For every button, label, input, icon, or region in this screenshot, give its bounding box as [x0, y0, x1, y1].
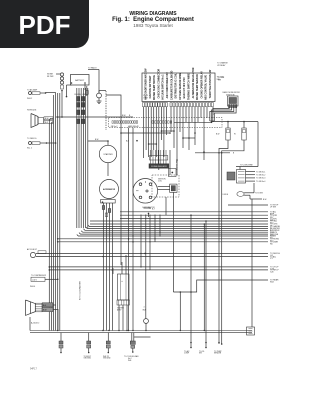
svg-text:TO RADIO: TO RADIO [88, 67, 97, 70]
wire condenser join [195, 140, 244, 344]
ECU harness drop wires [144, 107, 214, 175]
ignition dashed enclosure [152, 175, 179, 197]
ECU connector pin row [143, 103, 214, 107]
svg-text:L-W 2: L-W 2 [32, 280, 37, 282]
svg-text:W-B: W-B [128, 360, 132, 362]
svg-text:HORN (LH): HORN (LH) [27, 110, 37, 112]
svg-text:EGR CUT OFF VSV: EGR CUT OFF VSV [184, 77, 186, 99]
left bus wires [49, 91, 63, 331]
label cooling fan [79, 281, 82, 300]
bus end connector [247, 327, 255, 335]
fusible link feeder wires [77, 88, 88, 228]
starter M1 [88, 139, 117, 176]
svg-text:ALTERNATOR: ALTERNATOR [103, 188, 116, 191]
svg-text:RD: RD [270, 243, 273, 245]
connector A3 [30, 275, 59, 288]
svg-text:W-B 2: W-B 2 [27, 98, 32, 100]
svg-text:COIL: COIL [158, 180, 162, 182]
noise filter NF2 [218, 77, 241, 108]
svg-text:COMP: COMP [184, 353, 190, 355]
idle-up VSV V1 [27, 248, 46, 258]
svg-text:(IGNITION): (IGNITION) [226, 94, 235, 96]
svg-text:AIR CONDITIONER VSV: AIR CONDITIONER VSV [166, 72, 169, 99]
svg-text:J/B No.2: J/B No.2 [111, 126, 118, 128]
svg-text:CHECK ENG CONNECTOR: CHECK ENG CONNECTOR [158, 69, 160, 99]
svg-text:THROTTLE POSITION SW: THROTTLE POSITION SW [210, 69, 212, 98]
drop connector P0 [59, 333, 63, 354]
svg-text:CHOKE OPENER RELAY: CHOKE OPENER RELAY [200, 71, 203, 99]
svg-text:W: W [234, 134, 236, 136]
drop connector P4 [184, 342, 192, 355]
wire bus left risers [30, 309, 58, 331]
igniter U2 [113, 255, 130, 331]
bus junction dots [57, 330, 205, 331]
svg-text:TO A/C AMP: TO A/C AMP [27, 88, 38, 91]
wire band to body harness [36, 205, 281, 274]
band junction dots [102, 218, 219, 271]
svg-text:MAIN RELAY: MAIN RELAY [128, 125, 140, 128]
svg-text:OXYGEN SENSOR WIRE: OXYGEN SENSOR WIRE [180, 72, 182, 100]
wire band lower [128, 238, 134, 243]
ground arrows [144, 207, 156, 217]
svg-text:TO J/B No.1: TO J/B No.1 [256, 171, 265, 173]
svg-text:UNIT: UNIT [144, 98, 149, 100]
svg-text:LP RELAY: LP RELAY [217, 64, 226, 67]
voltage regulator VR1 [149, 150, 176, 177]
noise filter leads [174, 108, 258, 167]
svg-text:L-Y: L-Y [270, 258, 274, 260]
battery B1 [66, 75, 89, 98]
svg-text:FILTER: FILTER [47, 76, 54, 78]
horn H1 [27, 110, 53, 128]
svg-text:TO J/B No.4: TO J/B No.4 [256, 181, 265, 183]
drop connector P6 [214, 342, 223, 355]
svg-text:W TO COOLING FAN: W TO COOLING FAN [79, 281, 82, 300]
svg-text:4: 4 [144, 307, 145, 309]
svg-text:GROUND: GROUND [84, 358, 92, 360]
svg-text:TO COMPRESSOR: TO COMPRESSOR [31, 275, 47, 277]
wire W-feed [46, 93, 134, 118]
svg-text:ABS CONTROL VALVE: ABS CONTROL VALVE [205, 74, 208, 100]
svg-text:ALTERNATOR REGULATOR: ALTERNATOR REGULATOR [192, 67, 195, 98]
ground G1 [88, 67, 106, 131]
svg-text:B-W OIL PR: B-W OIL PR [177, 160, 179, 170]
svg-text:LP SW: LP SW [270, 207, 276, 209]
left bus junctions [49, 116, 59, 271]
drop connector P1 [84, 333, 92, 360]
svg-text:W-B: W-B [270, 282, 274, 284]
svg-text:WATER TEMP SWITCH: WATER TEMP SWITCH [153, 75, 156, 100]
svg-text:STARTER: STARTER [103, 153, 113, 156]
ignition coil T1 [158, 178, 177, 192]
wire right feeds [227, 121, 245, 123]
svg-text:B-W: B-W [122, 115, 126, 117]
wire band corners [77, 225, 268, 236]
watermark 94F17 [30, 368, 37, 371]
svg-text:SENDER: SENDER [214, 353, 222, 355]
svg-text:B-W: B-W [43, 310, 47, 312]
svg-text:A-21032 2: A-21032 2 [31, 322, 39, 325]
svg-text:TO DEFOG: TO DEFOG [27, 138, 37, 140]
ECU control unit U1 [142, 67, 215, 101]
svg-text:DIODE: DIODE [223, 194, 229, 196]
wire coil feeds [166, 150, 179, 292]
wire corner right [173, 279, 279, 331]
svg-text:THERMO SWITCH WIRE: THERMO SWITCH WIRE [189, 73, 191, 100]
alternator G2 [100, 180, 119, 204]
svg-text:W-L 2: W-L 2 [27, 148, 32, 150]
svg-text:TO J/B No.2: TO J/B No.2 [256, 175, 265, 177]
label TO TAIL [217, 62, 228, 67]
svg-text:TO IG SW: TO IG SW [255, 193, 263, 195]
drop connector P3 [124, 333, 151, 362]
svg-text:TO J/B No.3: TO J/B No.3 [256, 178, 265, 180]
drop connector P5 [199, 342, 207, 355]
svg-text:G-B: G-B [270, 272, 274, 274]
condenser C1 C2 [216, 122, 246, 140]
svg-text:SW: SW [199, 353, 202, 355]
alternator output wires [102, 203, 112, 331]
svg-text:DISTRIBUTOR IG COIL: DISTRIBUTOR IG COIL [176, 73, 178, 99]
connector CN1 [227, 165, 265, 184]
svg-text:GROUND: GROUND [103, 358, 111, 360]
svg-text:B-W: B-W [45, 118, 49, 120]
distributor D1 [133, 179, 158, 209]
svg-text:B-R: B-R [126, 141, 130, 143]
horn H2 [26, 300, 58, 325]
svg-text:94F17: 94F17 [30, 368, 37, 371]
wire relay-to-starter [106, 95, 171, 265]
title block [92, 12, 214, 28]
fusible links FL2 [75, 94, 87, 124]
svg-text:SW: SW [218, 79, 221, 81]
label TO IGN [217, 77, 224, 82]
bottom bus ground rail [30, 331, 252, 333]
trunk wires [129, 128, 253, 343]
svg-text:A/C IDLE UP: A/C IDLE UP [27, 248, 38, 251]
connector A2 [27, 138, 56, 150]
svg-text:B-Y: B-Y [152, 208, 156, 210]
junction block J1 [109, 118, 223, 128]
svg-text:+: + [121, 280, 123, 283]
svg-text:FUSIBLE LINK: FUSIBLE LINK [75, 94, 87, 96]
svg-text:TO COWL WIRE: TO COWL WIRE [240, 165, 254, 167]
svg-text:B-W: B-W [216, 134, 220, 136]
svg-text:WATER TEMP SENSOR: WATER TEMP SENSOR [196, 74, 199, 100]
svg-text:BATTERY: BATTERY [75, 79, 85, 82]
svg-text:VACUUM SWITCH No.1: VACUUM SWITCH No.1 [162, 74, 165, 100]
svg-text:CARBURETOR SOLENOID: CARBURETOR SOLENOID [170, 70, 173, 100]
check connector A4 [143, 307, 149, 331]
diode D2 [223, 183, 267, 201]
svg-text:B-W: B-W [263, 199, 267, 201]
PDF badge [0, 0, 89, 48]
svg-text:W-B 4: W-B 4 [30, 286, 35, 288]
connector A1 [27, 88, 46, 100]
drop connector P2 [103, 333, 111, 360]
svg-text:B: B [233, 153, 235, 155]
svg-text:B-W: B-W [95, 139, 99, 141]
noise filter FL1 [47, 73, 64, 91]
svg-text:IGNITION SW START: IGNITION SW START [149, 75, 152, 99]
